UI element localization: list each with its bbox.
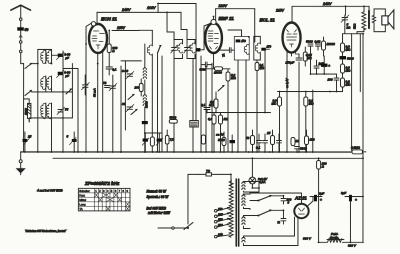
resistor to bus i xyxy=(218,132,226,152)
cap to bus n xyxy=(276,134,281,152)
oscillator coil L5 xyxy=(143,44,146,95)
wire input left vertical xyxy=(23,64,25,152)
coupling cap into IF2 xyxy=(218,48,234,57)
svg-text:25: 25 xyxy=(266,131,271,135)
svg-text:10000: 10000 xyxy=(214,71,222,75)
svg-text:7,5: 7,5 xyxy=(170,137,174,141)
svg-text:100V: 100V xyxy=(147,6,156,10)
trimmer C-ant 3-30pF xyxy=(52,52,71,59)
IF transformer 1 loop B xyxy=(184,39,195,58)
tube ECH11 top cap xyxy=(86,22,96,44)
svg-text:50: 50 xyxy=(246,136,250,140)
oscillator coil L6 xyxy=(143,95,148,121)
svg-text:0,02: 0,02 xyxy=(315,40,321,44)
electrolytic 8uF second xyxy=(341,191,357,202)
wire column x299 xyxy=(298,62,300,152)
wire 8uF2 down xyxy=(349,201,351,242)
svg-text:Normal: 53 W: Normal: 53 W xyxy=(146,189,166,193)
resistor to bus h xyxy=(201,135,205,144)
bottom right bus xyxy=(319,241,364,243)
connector block xyxy=(190,120,199,127)
svg-text:0,5MΩ: 0,5MΩ xyxy=(351,146,361,150)
svg-text:Sparsch.: 36 W: Sparsch.: 36 W xyxy=(146,195,169,199)
switch osc b xyxy=(131,109,138,115)
svg-text:0,3A: 0,3A xyxy=(259,180,265,184)
resistor 10000 horizontal xyxy=(206,67,230,75)
wire column x112.8 xyxy=(112,75,114,152)
secondary HT winding xyxy=(242,194,250,209)
junctions lower nets xyxy=(62,112,364,244)
svg-text:EBF 11: EBF 11 xyxy=(219,16,235,21)
svg-text:Kurz: Kurz xyxy=(79,193,85,197)
svg-text:150: 150 xyxy=(309,138,314,142)
secondary AZ heater winding xyxy=(242,182,259,193)
svg-text:5kΩ: 5kΩ xyxy=(353,23,357,29)
junctions on second bus xyxy=(251,157,363,159)
antenna coil L2b xyxy=(46,76,51,92)
label wattage xyxy=(146,189,170,215)
svg-text:4 mal bei 985 WKS: 4 mal bei 985 WKS xyxy=(37,188,63,192)
wire column x310.5 xyxy=(310,50,312,74)
svg-text:ECL 11: ECL 11 xyxy=(260,18,276,23)
svg-text:Schalter: Schalter xyxy=(79,189,90,193)
resistor 0.3M r2 xyxy=(341,64,352,78)
tube AZ11 envelope xyxy=(294,196,309,219)
svg-text:Lang: Lang xyxy=(79,202,86,206)
cap to bus b xyxy=(66,132,76,152)
svg-text:Mittel: Mittel xyxy=(79,198,86,202)
IF transformer 2 loop B xyxy=(254,36,261,60)
svg-text:MΩ: MΩ xyxy=(231,76,237,80)
wire column x86 xyxy=(85,44,87,152)
secondary heater winding 2 xyxy=(242,236,250,246)
wire heater AZ xyxy=(250,217,298,246)
wire column x102.7 xyxy=(102,50,104,152)
wire 8uF down xyxy=(318,196,320,242)
wire horizontal y92 xyxy=(32,91,73,93)
electrolytic 5000 xyxy=(340,56,355,64)
svg-text:+: + xyxy=(320,198,322,202)
power transformer primary xyxy=(229,180,233,237)
IF1 loop A feed xyxy=(167,32,174,152)
wire coil top header xyxy=(38,48,52,50)
svg-text:5000: 5000 xyxy=(24,108,28,115)
screen resistor R-sg xyxy=(107,30,117,66)
svg-text:200: 200 xyxy=(134,85,140,89)
svg-text:mit Motor 62W: mit Motor 62W xyxy=(148,211,171,215)
svg-text:215V: 215V xyxy=(275,9,285,13)
tube ECL11 envelope xyxy=(260,18,301,53)
antenna xyxy=(11,5,31,27)
resistor 0.3M out xyxy=(271,92,281,153)
wire diode load xyxy=(264,49,266,112)
switch S2 xyxy=(157,45,161,152)
antenna coil L3 (long-wave) xyxy=(41,103,46,119)
svg-text:10000: 10000 xyxy=(327,42,336,46)
resistor to bus d xyxy=(150,137,154,146)
junctions on ground bus xyxy=(24,151,314,153)
wire horizontal y74 cathode net xyxy=(311,73,337,75)
svg-text:5000: 5000 xyxy=(306,40,313,44)
tube EBF11 top cap xyxy=(211,17,216,25)
tube EBF11 electrodes xyxy=(208,31,219,49)
wire ECH left grid xyxy=(63,68,78,152)
wire column x72 xyxy=(71,64,73,118)
svg-text:320 V: 320 V xyxy=(348,244,357,248)
tube ECH11 envelope xyxy=(89,16,117,53)
svg-text:5000: 5000 xyxy=(347,57,354,61)
resistor 0.2M r3 xyxy=(341,78,352,87)
switch S1a xyxy=(25,63,32,69)
trimmer osc 2 xyxy=(122,102,134,112)
wire column x287 screen xyxy=(286,52,288,152)
electrolytic 8uF first xyxy=(310,192,324,203)
electrolytic to bus e xyxy=(156,133,163,152)
wire column x369 right edge xyxy=(368,6,370,10)
resistor 10000 ecl xyxy=(322,37,336,56)
svg-text:MΩ: MΩ xyxy=(209,103,215,107)
svg-text:75: 75 xyxy=(65,107,69,111)
antenna coil L1 (short-wave) xyxy=(41,49,46,63)
svg-text:1M: 1M xyxy=(224,117,229,121)
wire column x342.5 xyxy=(342,34,344,43)
svg-text:220V: 220V xyxy=(218,4,228,8)
wire EBF cathode down xyxy=(213,53,215,68)
svg-text:5000: 5000 xyxy=(300,147,307,151)
wire y133 stub xyxy=(145,132,162,134)
wire right B+ down xyxy=(357,158,363,242)
capacitor 50 osc xyxy=(103,81,110,88)
tube EBF11 envelope xyxy=(205,16,234,53)
transformer tap 150 xyxy=(214,218,230,223)
svg-text:3-30: 3-30 xyxy=(122,69,128,73)
wire horizontal y63.6 xyxy=(32,63,38,65)
loudspeaker xyxy=(382,10,394,29)
wire y90 net xyxy=(278,87,343,92)
capacitor 1uF xyxy=(314,60,324,74)
svg-text:5000: 5000 xyxy=(200,67,207,71)
output transformer secondary xyxy=(372,9,385,32)
wire antenna to input xyxy=(21,63,24,65)
svg-text:0,3: 0,3 xyxy=(208,117,213,121)
power transformer core xyxy=(236,179,238,246)
svg-text:5000: 5000 xyxy=(145,101,149,108)
resistor 150 right xyxy=(304,130,314,152)
wire column x63 xyxy=(62,51,64,152)
top rail 100V xyxy=(147,3,196,12)
capacitor 0.02 xyxy=(315,40,321,51)
svg-text:8μF: 8μF xyxy=(319,192,324,196)
capacitor heater hum xyxy=(281,196,292,205)
tube AZ11 electrodes xyxy=(298,208,304,214)
svg-text:ECH 11: ECH 11 xyxy=(101,16,117,21)
resistor to bus m xyxy=(266,130,275,152)
resistor 100 below bus xyxy=(317,158,327,196)
electrolytic to bus c xyxy=(142,133,149,152)
second bus line xyxy=(53,157,363,159)
wire ECL cathode xyxy=(291,53,293,57)
electrolytic cathode ECL xyxy=(321,56,330,74)
wire AZ cathode right xyxy=(307,197,313,207)
wire column x363 long B+ xyxy=(362,34,364,158)
caps to bus l xyxy=(256,134,268,152)
wire 185V stub xyxy=(97,12,139,30)
ground bus xyxy=(21,151,352,153)
wire mains left xyxy=(188,174,199,224)
top rail 240V right xyxy=(292,2,369,23)
svg-text:MΩ: MΩ xyxy=(272,102,278,106)
coupling coil L4 xyxy=(24,99,31,122)
resistor 1M avc xyxy=(218,113,228,153)
resistor 0.3M avc xyxy=(208,113,216,153)
IF2 detector cap xyxy=(261,45,271,51)
wire bottom left y118 xyxy=(29,118,72,122)
wire column x121 xyxy=(120,66,122,152)
pilot lamp xyxy=(249,158,268,188)
wire lamp to AZ heater xyxy=(252,182,259,193)
svg-text:+: + xyxy=(355,198,357,202)
svg-text:330 V: 330 V xyxy=(303,237,312,241)
cathode capacitor 5000 EBF xyxy=(200,62,213,72)
capacitor heater hum 2 xyxy=(277,210,286,224)
svg-text:30: 30 xyxy=(122,102,126,106)
transformer tap 125 xyxy=(214,212,230,217)
padder resistor xyxy=(134,79,144,96)
cap to bus p xyxy=(294,147,307,153)
svg-text:TA: TA xyxy=(79,207,83,211)
resistor 0.1M out xyxy=(304,92,315,153)
heater switch contacts xyxy=(250,195,283,217)
svg-text:MΩ: MΩ xyxy=(309,102,315,106)
resistor 5000 bottom xyxy=(169,116,177,124)
svg-text:+: + xyxy=(328,64,330,68)
svg-text:0,1: 0,1 xyxy=(201,103,206,107)
AVC coil left xyxy=(139,30,152,152)
grid capacitor EBF xyxy=(196,23,211,51)
trimmer C2 0-30pF xyxy=(57,70,71,77)
svg-text:TA: TA xyxy=(222,54,226,58)
tube ECL11 electrodes xyxy=(287,30,298,48)
mains fuse xyxy=(199,169,231,186)
trimmer osc 3-30 xyxy=(122,69,134,79)
switch S1b xyxy=(25,90,32,96)
wire x167 drop xyxy=(166,12,168,32)
svg-text:185V: 185V xyxy=(117,26,126,30)
switch osc a xyxy=(128,94,135,100)
ground symbol xyxy=(16,152,26,175)
svg-text:5000: 5000 xyxy=(170,116,177,120)
svg-text:50: 50 xyxy=(25,28,29,32)
svg-text:MΩ: MΩ xyxy=(346,48,352,52)
resistor to bus g xyxy=(165,130,174,152)
output transformer core xyxy=(368,10,370,29)
electrolytic to bus j xyxy=(229,135,235,152)
wire column x206 xyxy=(205,66,207,152)
transformer tap 220 xyxy=(214,223,230,228)
svg-text:25: 25 xyxy=(27,134,32,138)
svg-text:AZ 11: AZ 11 xyxy=(294,196,307,201)
bus series resistor 0.5M xyxy=(351,146,366,154)
svg-text:MΩ: MΩ xyxy=(260,66,264,70)
transformer tap 110 xyxy=(214,207,230,212)
antenna coil L3b xyxy=(46,103,51,152)
svg-text:pF: pF xyxy=(64,74,69,78)
svg-text:0,1: 0,1 xyxy=(256,146,261,150)
resistor to bus k xyxy=(246,130,255,152)
switch AVC xyxy=(218,85,225,91)
AVC line horizontal xyxy=(207,112,271,114)
field coil xyxy=(327,232,344,242)
svg-text:MΩ: MΩ xyxy=(307,56,313,60)
wire column x201 xyxy=(200,56,202,152)
switch table xyxy=(78,188,130,211)
resistor 0.05M xyxy=(303,47,312,66)
output transformer primary xyxy=(353,6,366,33)
wire parallel feed xyxy=(359,34,361,92)
svg-text:Bei 985 WKS: Bei 985 WKS xyxy=(146,206,166,210)
top rail 240V (left) xyxy=(97,8,181,13)
wire AZ plate top xyxy=(250,193,302,204)
svg-text:170: 170 xyxy=(267,45,272,49)
antenna coil L1b xyxy=(46,49,51,63)
tone trimmer 5000 xyxy=(341,15,351,30)
capacitor 0.1 AVC xyxy=(201,103,210,113)
svg-text:ca 0,4V: ca 0,4V xyxy=(285,77,289,88)
wire heater nets right xyxy=(249,193,251,209)
svg-text:100: 100 xyxy=(328,78,333,82)
svg-text:MΩ: MΩ xyxy=(346,83,352,87)
mains switch xyxy=(158,222,193,229)
svg-text:0,1: 0,1 xyxy=(112,67,117,71)
svg-text:250pF: 250pF xyxy=(285,61,295,65)
coupling capacitor 250pF xyxy=(285,54,303,65)
wire x196 drop xyxy=(195,3,197,65)
wire column x196 down xyxy=(195,66,197,120)
IF transformer 1 loop A xyxy=(171,39,183,58)
svg-text:ca 4V: ca 4V xyxy=(216,133,225,137)
svg-text:pF: pF xyxy=(64,56,69,60)
svg-text:MΩ: MΩ xyxy=(346,69,352,73)
svg-text:240V: 240V xyxy=(322,2,332,6)
wire x181 drop xyxy=(180,12,182,29)
resistor 0.1M below IF2 xyxy=(255,63,264,71)
resistor 0.2M vertical xyxy=(226,69,237,152)
svg-text:20: 20 xyxy=(294,139,299,143)
wire column x125.4 xyxy=(124,61,126,130)
junctions upper nets xyxy=(37,3,365,93)
wire left long A xyxy=(37,49,39,151)
IF1 loop B feed xyxy=(181,29,193,152)
resistor to bus o xyxy=(291,138,299,146)
wire column x162 xyxy=(161,56,163,152)
svg-text:50: 50 xyxy=(103,81,107,85)
capacitor 100pF tone xyxy=(328,74,340,92)
wire y33.7 net xyxy=(343,28,364,34)
transformer tap 240 xyxy=(214,233,229,238)
wire column x312.8 xyxy=(312,90,314,152)
svg-text:Telefunken 985 Wechselstrom „R: Telefunken 985 Wechselstrom „Rastatt“ xyxy=(25,230,66,233)
wire ECH cathode down xyxy=(97,53,99,152)
cap to bus a xyxy=(22,132,31,152)
wire IF2 tops xyxy=(228,30,255,42)
switch S1c xyxy=(66,88,72,94)
svg-text:TS: TS xyxy=(206,169,210,173)
trimmer osc pad xyxy=(82,75,90,95)
decoupling capacitor C-sg xyxy=(106,67,117,75)
resistor 0.3M r1 xyxy=(341,43,352,56)
svg-text:8μF: 8μF xyxy=(341,191,346,195)
svg-text:240V: 240V xyxy=(121,8,131,12)
svg-text:5000: 5000 xyxy=(218,138,225,142)
antenna coil L2 (medium-wave) xyxy=(41,76,46,92)
secondary heater winding 1 xyxy=(242,216,250,229)
svg-text:53 mA: 53 mA xyxy=(93,88,97,97)
trimmer C3 75pF xyxy=(57,107,68,114)
svg-text:Spule: Spule xyxy=(330,235,339,239)
wire IF2 bottom feeds xyxy=(238,60,257,152)
tube ECH11 electrodes xyxy=(92,31,105,49)
antenna series capacitor xyxy=(17,27,28,63)
blocking capacitor osc xyxy=(142,121,148,152)
top rail 220V xyxy=(216,4,255,42)
wire column x351.6 long xyxy=(351,34,353,151)
trimmer mid xyxy=(109,83,117,90)
resistor 0.1M vertical xyxy=(209,92,218,112)
IF transformer 2 loop A xyxy=(234,36,249,60)
svg-text:ZF=468/472 kHz: ZF=468/472 kHz xyxy=(84,181,120,186)
capacitor 5000 top xyxy=(306,40,313,51)
